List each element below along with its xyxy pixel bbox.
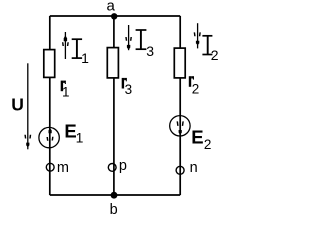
label r2	[189, 76, 200, 96]
label E2	[191, 127, 211, 152]
svg-text:3: 3	[146, 43, 154, 59]
svg-text:1: 1	[76, 130, 84, 146]
wire top a-rail	[50, 15, 180, 17]
svg-text:E: E	[191, 127, 203, 148]
terminal p	[108, 158, 127, 174]
svg-text:n: n	[190, 160, 198, 176]
node a	[107, 0, 118, 20]
resistor R3	[107, 48, 118, 78]
current arrow I2 (down)	[194, 23, 201, 48]
svg-text:2: 2	[204, 137, 212, 152]
resistor R1	[44, 50, 55, 78]
svg-text:1: 1	[62, 85, 70, 100]
svg-text:a: a	[107, 0, 116, 14]
label r3	[122, 78, 132, 97]
wire middle branch	[113, 16, 115, 195]
wire right branch	[179, 16, 181, 195]
wire left branch	[49, 16, 51, 195]
svg-text:3: 3	[125, 82, 133, 97]
label I3	[136, 30, 155, 59]
svg-text:m: m	[57, 160, 69, 176]
label E1	[64, 121, 83, 146]
node b	[110, 192, 118, 218]
EMF source E1 (arrow up)	[39, 127, 59, 147]
label I2	[202, 36, 218, 63]
EMF source E2 (arrow down)	[170, 116, 190, 136]
wire bottom b-rail	[50, 194, 180, 196]
current arrow I1 (up)	[62, 32, 69, 59]
svg-text:p: p	[119, 158, 127, 174]
label I1	[72, 39, 89, 66]
terminal m	[46, 160, 69, 176]
current arrow I3 (down)	[125, 25, 132, 50]
svg-text:U: U	[11, 95, 24, 115]
svg-text:2: 2	[192, 81, 200, 96]
svg-text:b: b	[110, 202, 118, 218]
voltage arrow U (down)	[11, 63, 31, 149]
resistor R2	[174, 48, 185, 78]
svg-text:2: 2	[211, 47, 219, 63]
terminal n	[176, 160, 198, 176]
svg-text:1: 1	[81, 50, 89, 66]
label r1	[61, 81, 70, 100]
